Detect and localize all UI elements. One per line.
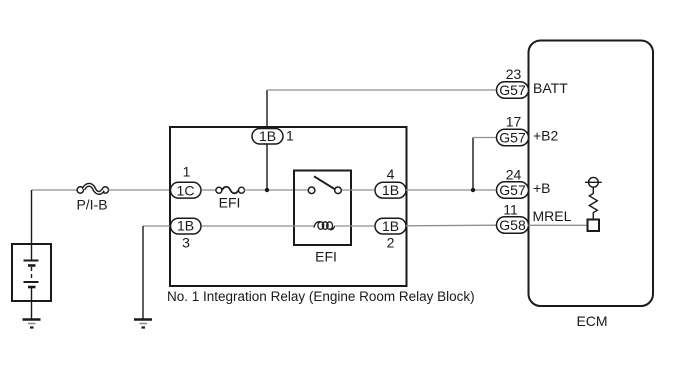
fusible link P/I-B bbox=[77, 185, 108, 193]
svg-text:No. 1 Integration Relay (Engin: No. 1 Integration Relay (Engine Room Rel… bbox=[167, 289, 475, 304]
connector 1B pin 3 bbox=[171, 218, 202, 234]
wire relay coil to 1B pin 2 bbox=[335, 225, 375, 227]
svg-text:BATT: BATT bbox=[533, 80, 568, 96]
relay switch contacts bbox=[308, 176, 341, 193]
connector G58 pin 11 (MREL) bbox=[497, 217, 529, 233]
ECM MREL driver block bbox=[588, 220, 600, 232]
svg-text:1B: 1B bbox=[177, 218, 194, 234]
wire switch to 1B pin 4 bbox=[342, 189, 374, 191]
wire 1B pin 2 to ECM MREL bbox=[406, 224, 497, 227]
svg-text:24: 24 bbox=[506, 167, 522, 183]
wire ground branch (vertical) bbox=[142, 226, 144, 319]
relay EFI inner box bbox=[294, 171, 351, 246]
ECM box bbox=[529, 41, 654, 307]
wire battery negative to ground bbox=[31, 288, 33, 319]
junction node (+B2 branch) bbox=[471, 188, 475, 192]
relay block box (No. 1 Integration Relay) bbox=[170, 127, 407, 286]
svg-text:4: 4 bbox=[387, 166, 395, 182]
svg-text:1B: 1B bbox=[382, 182, 399, 198]
svg-text:EFI: EFI bbox=[219, 195, 241, 211]
svg-text:P/I-B: P/I-B bbox=[76, 197, 107, 213]
svg-text:1: 1 bbox=[286, 127, 294, 143]
svg-text:2: 2 bbox=[387, 235, 395, 251]
svg-text:G57: G57 bbox=[499, 130, 526, 146]
junction node (BATT branch) bbox=[265, 188, 269, 192]
relay coil bbox=[314, 222, 335, 230]
svg-text:G57: G57 bbox=[499, 182, 526, 198]
svg-text:17: 17 bbox=[506, 113, 522, 129]
svg-text:G57: G57 bbox=[499, 82, 526, 98]
connector 1B pin 2 bbox=[375, 218, 406, 234]
wire 1B pin 3 to ground branch (horizontal) bbox=[143, 225, 170, 227]
connector 1B (relay top) bbox=[252, 128, 283, 144]
wire to ECM BATT (horizontal) bbox=[267, 89, 497, 91]
svg-text:3: 3 bbox=[182, 235, 190, 251]
connector G57 pin 24 (+B) bbox=[497, 182, 529, 198]
wire 1B pin 3 to relay coil bbox=[202, 225, 314, 227]
svg-text:+B2: +B2 bbox=[533, 127, 559, 143]
ground (relay coil) bbox=[134, 320, 152, 328]
wire junction up through 1B pin 1 (vertical) bbox=[266, 90, 268, 190]
wire battery positive vertical drop bbox=[31, 190, 33, 260]
svg-text:23: 23 bbox=[506, 66, 522, 82]
svg-text:1: 1 bbox=[183, 164, 191, 180]
wire MREL internal (ECM) bbox=[529, 224, 588, 226]
svg-text:EFI: EFI bbox=[315, 249, 337, 265]
svg-text:+B: +B bbox=[533, 180, 551, 196]
resistor (ECM pull-up) bbox=[589, 187, 597, 219]
svg-text:1C: 1C bbox=[177, 182, 195, 198]
wire junction to +B2 (vertical) bbox=[472, 138, 474, 191]
wire battery positive to fusible link (horizontal) bbox=[32, 189, 79, 191]
battery bbox=[12, 244, 51, 301]
svg-text:MREL: MREL bbox=[533, 208, 572, 224]
connector 1B pin 4 bbox=[375, 182, 406, 198]
svg-text:G58: G58 bbox=[499, 217, 526, 233]
svg-text:ECM: ECM bbox=[576, 313, 607, 329]
fuse EFI bbox=[216, 187, 245, 194]
svg-text:1B: 1B bbox=[259, 128, 276, 144]
wire to ECM +B2 (horizontal) bbox=[473, 137, 497, 139]
wire 1C to fuse EFI bbox=[202, 189, 217, 191]
connector G57 pin 17 (+B2) bbox=[497, 129, 529, 145]
wire 1B pin 4 to ECM +B bbox=[406, 189, 497, 191]
connector 1C bbox=[171, 182, 202, 198]
connector G57 pin 23 (BATT) bbox=[497, 82, 529, 98]
wire fusible link to relay block 1C bbox=[108, 189, 170, 191]
wire fuse to relay switch contact bbox=[244, 189, 309, 191]
svg-text:1B: 1B bbox=[382, 218, 399, 234]
svg-text:11: 11 bbox=[503, 202, 518, 218]
ground (battery) bbox=[23, 320, 41, 328]
ECM internal supply terminal bbox=[585, 177, 602, 187]
